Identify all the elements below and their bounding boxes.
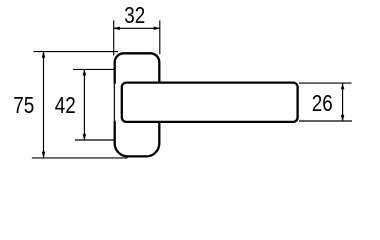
dimension 42 extension line top [73,68,115,70]
dimension 75 arrow up [42,52,45,58]
dimension 26 arrow up [341,83,344,89]
svg-text:75: 75 [13,92,34,118]
dimension 32 arrow left [114,27,120,30]
dimension 75 extension line top [34,51,119,53]
dimension 42 arrow up [83,69,86,75]
dimension 26 extension line bottom [299,120,352,122]
svg-text:42: 42 [55,92,76,118]
dimension 32 extension line right [159,20,161,54]
svg-text:32: 32 [124,2,145,28]
dimension 26 arrow down [341,115,344,121]
dimension 75 line [43,52,45,158]
dimension 42 extension line bottom [75,139,115,141]
rose edge thin segment [113,84,115,121]
dimension 32 line [114,27,160,29]
dimension 26 line [342,83,344,121]
dimension 75 extension line bottom [32,157,128,159]
dimension 32 extension line left [113,20,115,55]
svg-text:26: 26 [312,90,333,116]
dimension 32 arrow right [154,27,160,30]
dimension 75 arrow down [42,152,45,158]
dimension 42 arrow down [83,134,86,140]
handle lever [122,83,298,122]
handle rose outline [115,53,160,156]
rose edge hidden segment cover [113,84,119,121]
dimension 26 extension line top [299,82,352,84]
dimension 42 line [83,69,85,140]
